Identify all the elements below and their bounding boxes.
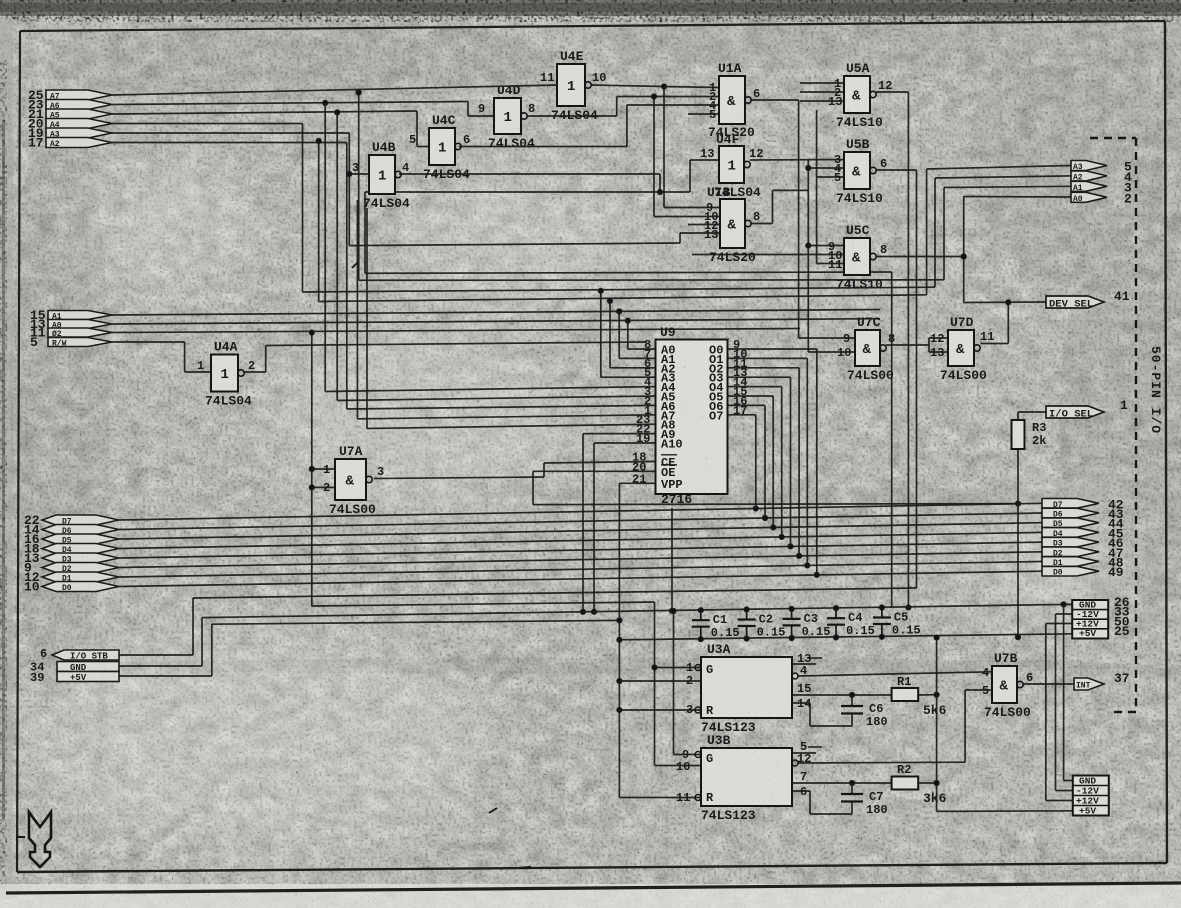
wire to U1A pin4	[627, 104, 719, 106]
node N-936 rail	[934, 635, 939, 640]
wire A4 vert down	[324, 103, 326, 392]
connector pin 13 input A0	[48, 320, 112, 329]
output arrow pin 2	[1071, 191, 1132, 206]
wire O5 drop	[772, 396, 774, 527]
node N-A1	[617, 309, 622, 314]
wire A8 vert	[366, 208, 368, 429]
node N-A7B	[661, 84, 666, 89]
wire U5C out	[876, 256, 964, 258]
node N-u3b9	[671, 608, 676, 613]
wire RW row	[112, 341, 185, 343]
node N-r2	[934, 780, 939, 785]
nand gate U7C	[837, 315, 895, 383]
wire U4A up	[265, 346, 267, 373]
inverter U4F	[700, 132, 763, 200]
wire +12 stub	[1046, 623, 1072, 625]
wire arrow2/devsel vert	[963, 197, 965, 303]
wire U5B drop	[916, 170, 918, 588]
wire U5B in4	[808, 167, 844, 169]
wire U1A out	[751, 99, 799, 101]
wire trigger line	[312, 602, 655, 606]
node N-D7	[753, 506, 758, 511]
connector pin 11 input Ø2	[48, 328, 112, 337]
wire R3 bottom	[1017, 449, 1019, 637]
nand gate U5C	[828, 223, 887, 292]
wire GND vert	[1063, 604, 1065, 780]
node N-c6	[849, 692, 854, 697]
wire arrow5 line	[927, 166, 1071, 170]
node N-A6	[323, 100, 328, 105]
wire GND to box	[119, 665, 202, 667]
wire U5B in5	[817, 176, 844, 178]
wire R2 right	[918, 782, 936, 784]
wire to U3B pin10	[655, 765, 702, 767]
node N-D1	[805, 563, 810, 568]
node N-c5b	[879, 634, 884, 639]
connector pin 9 data line D2	[42, 563, 119, 573]
wire +12 vert	[1045, 624, 1047, 801]
wire U3A p15	[792, 694, 892, 696]
wire U4B out	[399, 173, 660, 175]
inverter U4B	[352, 140, 410, 211]
wire split down	[928, 345, 930, 352]
top-left address input connector	[28, 88, 112, 151]
wire U1B out right	[773, 189, 809, 191]
wire U5C in9	[808, 245, 844, 247]
capacitor C6 180	[841, 702, 888, 729]
wire arrow3 line	[944, 186, 1071, 187]
wire O0 stub	[728, 348, 817, 350]
wire A5 line to U9	[337, 396, 655, 401]
wire O2 stub	[728, 367, 800, 369]
wire into U4A pin1	[185, 371, 211, 373]
darker mottle clouds	[10, 10, 1181, 700]
wire to U7D pin12	[929, 337, 948, 339]
wire U5C in10	[692, 254, 844, 256]
wire U4C out	[459, 146, 627, 148]
wire L1 line	[365, 272, 892, 273]
wire GND box stub	[1064, 603, 1073, 605]
mid-left control input connector	[30, 308, 112, 350]
node N-A9	[580, 609, 585, 614]
wire U4B out down	[659, 174, 661, 192]
wire data line D3	[119, 542, 1042, 558]
wire arrow3 riser	[943, 188, 945, 280]
node N-D3	[788, 544, 793, 549]
node N-c4t	[833, 606, 838, 611]
wire into U4D pin9	[468, 115, 494, 117]
wire U5A in1	[800, 82, 844, 84]
wire U9 gnd vert	[671, 508, 673, 611]
node N-row5 U4B tap	[347, 171, 352, 176]
wire O3 drop	[790, 377, 792, 546]
wire IOSTB line	[193, 588, 917, 598]
node N-gndv	[1061, 602, 1066, 607]
wire A3 drop	[600, 291, 602, 377]
wire row6 vert2	[346, 143, 348, 410]
wire to U7C pin10	[808, 351, 855, 353]
node N-c1t	[698, 608, 703, 613]
wire to U1B pin9	[664, 207, 720, 209]
wire into U4F pin13	[690, 159, 719, 161]
wire data line D5	[119, 523, 1042, 539]
node N-phi2	[309, 330, 314, 335]
wire to U1B pin10	[654, 216, 720, 218]
connector pin 5 input R/W	[48, 338, 112, 347]
connector pin 17 input A2	[46, 138, 112, 148]
left scan edge	[0, 17, 13, 897]
node N-c3t	[789, 606, 794, 611]
node N-D6	[762, 515, 767, 520]
wire O1 drop	[806, 358, 808, 565]
wire L1 drop to rail	[891, 272, 893, 608]
wire U7A in1	[312, 468, 335, 470]
nand gate U7A	[323, 444, 384, 517]
inverter U4D	[478, 83, 535, 151]
wire +5V riser	[211, 624, 213, 676]
node N-D0	[814, 572, 819, 577]
node N-D2	[797, 553, 802, 558]
wire data line D1	[119, 562, 1042, 578]
wire C6 loop up	[809, 703, 811, 726]
wire O4 stub	[728, 386, 782, 388]
wire A9 drop	[582, 434, 584, 612]
wire jog up	[616, 97, 618, 117]
wire x816 vert	[816, 110, 818, 264]
node N-D4	[779, 534, 784, 539]
node N-u5a rail	[906, 605, 911, 610]
resistor R1 5k6	[892, 675, 947, 718]
wire data line D4	[119, 532, 1042, 548]
resistor R3 2k	[1012, 420, 1047, 449]
wire U3B qb out	[798, 761, 965, 764]
wire to U7C pin9	[799, 337, 855, 339]
wire U3A qb out	[798, 672, 992, 676]
nand gate U7B	[982, 651, 1033, 720]
node N-c1b	[698, 637, 703, 642]
node N-A10	[591, 609, 596, 614]
wire U7C out	[886, 344, 929, 346]
wire GND riser	[201, 618, 203, 666]
node N-c2t	[744, 607, 749, 612]
connector pin 12 data line D1	[42, 572, 119, 582]
connector pin 21 input A5	[46, 109, 112, 119]
wire U1A in5 stub	[688, 113, 719, 115]
wire U4E out to node	[591, 85, 664, 87]
wire row6	[112, 142, 347, 144]
node N-u5b4	[806, 165, 811, 170]
wire IOSEL wire	[1018, 411, 1046, 413]
node N-u3a2	[617, 678, 622, 683]
one-shot U3A 74LS123	[686, 642, 822, 735]
capacitor C4 0.15	[827, 608, 875, 638]
wire into U1B pin13	[680, 232, 720, 234]
wire U1B in12 stub	[688, 224, 720, 226]
wire +12 to box2	[1046, 800, 1073, 802]
nand gate U1B	[704, 185, 760, 265]
wire O5 stub	[728, 395, 774, 397]
power connector block pins 26,33,50,25	[1072, 595, 1130, 639]
capacitor C3 0.15	[783, 609, 831, 639]
wire U7D riser	[1007, 302, 1009, 343]
wire up to U4F in	[689, 160, 691, 192]
wire vert A7B down to U1B pin9	[663, 87, 665, 208]
wire O4 drop	[781, 387, 783, 537]
lower-left data bus connector	[24, 513, 119, 595]
wire U5A in13	[800, 100, 844, 102]
wire U5A out	[876, 91, 908, 93]
wire row6 vert	[318, 141, 320, 302]
wire C7 stem top	[851, 783, 853, 794]
wire A3 into U9	[601, 376, 656, 378]
wire into U4C pin5	[417, 146, 429, 148]
nand gate U1A	[708, 61, 760, 140]
capacitor C2 0.15	[738, 610, 786, 640]
EPROM U9 2716	[632, 325, 747, 507]
wire data line D7	[119, 503, 1042, 520]
light paper below bottom rule	[0, 884, 1181, 908]
wire A10 drop	[593, 443, 595, 612]
wire row4	[112, 123, 303, 125]
wire data line D0	[119, 571, 1042, 586]
wire A9 wire	[583, 433, 656, 435]
wire C7 stem bot	[851, 802, 853, 815]
wire U3B qb up	[964, 690, 966, 762]
output arrow pin 5	[1071, 160, 1132, 175]
nand gate U7D	[930, 315, 994, 383]
+5V input box pin 39	[57, 672, 119, 682]
node N-u3a3	[617, 707, 622, 712]
wire row5 horiz2	[349, 243, 680, 246]
capacitor C7 180	[841, 790, 888, 817]
wire A0 row	[112, 319, 880, 324]
wire jog down to U4C in	[416, 111, 418, 147]
wire R1 right	[918, 694, 936, 696]
wire arrow4 riser	[934, 178, 936, 287]
node N-c7	[849, 780, 854, 785]
node N-r3	[1015, 635, 1020, 640]
wire O7 stub	[728, 414, 756, 416]
wire to U7D pin13	[929, 351, 948, 353]
wire A0 drop	[627, 321, 629, 349]
wire to U3B pin9	[674, 754, 702, 756]
nand gate U5B	[834, 137, 887, 206]
wire U7B out	[1023, 683, 1074, 685]
wire trigger drop	[654, 602, 656, 766]
connector pin 13 data line D3	[42, 553, 119, 563]
wire OE wire	[533, 470, 656, 472]
wire C6 loop left	[810, 725, 852, 727]
node N-c2b	[744, 636, 749, 641]
wire U7D out to riser	[981, 343, 1009, 345]
wire O6 stub	[728, 404, 766, 406]
wire O6 drop	[764, 405, 766, 518]
wire A4 line to U9	[325, 387, 655, 392]
output arrow pin 3	[1071, 180, 1132, 195]
capacitor C1 0.15	[692, 610, 740, 640]
wire U5C in11	[817, 263, 844, 265]
wire U1A out drop	[798, 100, 800, 338]
wire to U3B pin11	[619, 797, 701, 799]
node N-u7a1	[309, 466, 314, 471]
wire loop right	[660, 191, 690, 193]
node N-c4b	[833, 635, 838, 640]
node N-row1 x358	[356, 90, 361, 95]
wire to U1A pin2	[617, 96, 719, 98]
wire U7A out to CE	[374, 477, 544, 479]
wire data line D6	[119, 513, 1042, 530]
connector pin 14 data line D6	[42, 525, 119, 535]
wire O2 drop	[798, 368, 800, 556]
wire to U3A pin1	[655, 667, 702, 669]
wire A2 drop	[609, 301, 611, 368]
node N-oe-iosel	[1015, 501, 1020, 506]
wire A7 row to U4E	[112, 85, 557, 95]
wire A0 into U9	[628, 348, 656, 350]
one-shot U3B 74LS123	[676, 733, 822, 823]
wire x311 vert top	[311, 333, 313, 607]
node N-A5	[335, 110, 340, 115]
wire -12 vert	[1055, 614, 1057, 791]
wire U5A in2	[800, 91, 844, 93]
data arrow pin 42 D7	[1042, 497, 1124, 512]
wire O3 stub	[728, 376, 791, 378]
wire U3B q stub	[792, 752, 816, 754]
stray marks	[489, 808, 497, 813]
wire U3A q stub	[792, 663, 816, 665]
wire C6 stem bot	[851, 714, 853, 727]
node N-trig U3A	[652, 665, 657, 670]
wire jog up to U1B pin13	[679, 233, 681, 243]
wire arrow2 line	[964, 196, 1071, 199]
node N-u7a2	[309, 485, 314, 490]
wire U5B out	[876, 169, 917, 171]
wire C7 loop left	[810, 813, 852, 815]
node N-u5c9	[806, 243, 811, 248]
power connector block (second)	[1073, 776, 1109, 817]
wire A1 into U9	[619, 357, 655, 359]
wire IOSTB riser	[192, 598, 194, 655]
node N-A2	[607, 298, 612, 303]
wire O0 drop	[816, 349, 818, 575]
node N-A6B	[651, 94, 656, 99]
node N-u9gnd	[669, 608, 674, 613]
data arrow pin 47 D2	[1042, 546, 1124, 561]
node N-devsel	[1006, 300, 1011, 305]
wire U3B p7	[792, 782, 892, 784]
light paper patches	[30, 170, 1140, 850]
inverter U4C	[409, 113, 470, 182]
connector pin 25 input A7	[46, 90, 112, 100]
connector pin 22 data line D7	[42, 515, 119, 525]
output arrow pin 4	[1071, 170, 1132, 185]
wire U3A p14	[792, 702, 810, 704]
GND input box pin 34	[57, 662, 119, 672]
wire U4D out	[527, 115, 617, 117]
wire jog up	[626, 105, 628, 147]
nand gate U5A	[828, 61, 892, 130]
wire U1B out	[751, 223, 773, 225]
INT output arrow pin 37	[1074, 671, 1130, 691]
dashed 50-pin bus bracket	[1090, 138, 1136, 712]
wire row5 vert	[348, 133, 350, 246]
wire to U7B pin5	[965, 689, 992, 691]
I/O SEL output arrow pin 1	[1046, 398, 1128, 421]
wire A2 line	[319, 295, 927, 302]
wire L2 line	[359, 279, 944, 282]
wire U3B9 drop	[673, 611, 675, 755]
wire x358 vert	[358, 93, 360, 281]
wire -12 to box2	[1056, 790, 1073, 792]
wire DEVSEL line	[964, 301, 1046, 304]
data arrow pin 43 D6	[1042, 507, 1124, 522]
I/O STB output arrow pin 6	[30, 647, 119, 685]
wire A1 drop	[618, 311, 620, 358]
wire row4 vert	[302, 124, 304, 293]
wire U7A in2	[312, 486, 335, 488]
wire +5 bottom row	[937, 810, 1073, 813]
wire A6 row	[112, 102, 468, 105]
wire U4F out to U5B pin3	[750, 159, 844, 162]
wire row5	[112, 132, 349, 134]
wire C6 stem top	[851, 695, 853, 706]
connector pin 15 input A1	[48, 311, 112, 320]
DEV SEL output arrow pin 41	[1046, 289, 1130, 311]
wire loop left	[365, 191, 660, 193]
wire x365 vert	[364, 192, 366, 273]
node N-U4Bout	[657, 189, 662, 194]
connector pin 19 input A3	[46, 128, 112, 138]
wire A8 line to U9	[367, 424, 656, 428]
capacitor C5 0.15	[873, 608, 921, 638]
wire jog down to U4D in	[467, 102, 469, 117]
wire CE jog up	[543, 463, 545, 477]
node N-D5	[771, 525, 776, 530]
wire A3 line	[303, 287, 936, 292]
wire GND to box2	[1064, 780, 1073, 782]
wire VPP wire	[619, 482, 655, 484]
wire A7 vert	[356, 200, 358, 419]
wire GND rail	[202, 604, 1072, 617]
connector pin 18 data line D4	[42, 544, 119, 554]
wire A2 into U9	[610, 367, 656, 369]
wire A6 line to U9	[347, 405, 656, 409]
wire x936 vert	[936, 638, 938, 812]
wire A1 row	[112, 310, 880, 316]
wire IOSTB to arrow	[119, 654, 193, 656]
wire to U3A pin2	[619, 680, 701, 682]
wire -12 stub	[1056, 613, 1073, 615]
inverter U4A	[197, 340, 255, 409]
wire CE into U9	[544, 462, 656, 464]
node N-c3b	[789, 635, 794, 640]
wire split up	[928, 338, 930, 345]
wire arrow5 riser	[926, 169, 928, 295]
wire A5 vert down	[336, 112, 338, 400]
wire OE long line	[533, 504, 1018, 505]
wire +5V line	[212, 620, 620, 624]
wire C7 loop up	[809, 791, 811, 814]
wire O7 drop	[755, 415, 757, 509]
wire +5V to box	[119, 675, 212, 677]
publisher logo arrow mark	[29, 812, 51, 867]
wire U4A out	[244, 371, 266, 373]
wire +5V rail	[619, 634, 1072, 640]
wire arrow4 line	[935, 176, 1071, 178]
node N-row6a	[316, 138, 321, 143]
wire to U3A pin3	[619, 709, 701, 711]
wire U1B out drop	[807, 160, 809, 352]
